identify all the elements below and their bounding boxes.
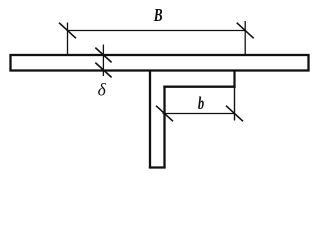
dimension B: left tick: [59, 23, 76, 39]
dimension delta: upper tick: [95, 48, 111, 63]
dimension B: dimension line: [68, 30, 246, 32]
flange plate B x delta: [11, 55, 309, 71]
dimension b: right tick: [226, 106, 243, 122]
svg-text:B: B: [153, 6, 163, 25]
web angle: horizontal leg underside edge: [163, 86, 235, 88]
web angle: vertical leg left edge: [149, 70, 151, 169]
dimension B: right extension line: [244, 21, 246, 54]
dimension b: left tick: [156, 106, 173, 122]
dimension b: right extension line: [234, 88, 236, 121]
svg-text:b: b: [198, 94, 205, 114]
dimension B: right tick: [237, 23, 254, 39]
dimension b: dimension line: [163, 113, 236, 115]
dimension delta: lower tick: [95, 63, 111, 78]
svg-text:δ: δ: [98, 80, 107, 100]
dimension delta: extension line: [102, 45, 104, 77]
web angle: bottom edge: [149, 166, 166, 168]
dimension B: left extension line: [67, 23, 69, 55]
web angle: vertical leg right edge: [163, 86, 165, 169]
web angle: horizontal leg end edge: [233, 70, 235, 88]
